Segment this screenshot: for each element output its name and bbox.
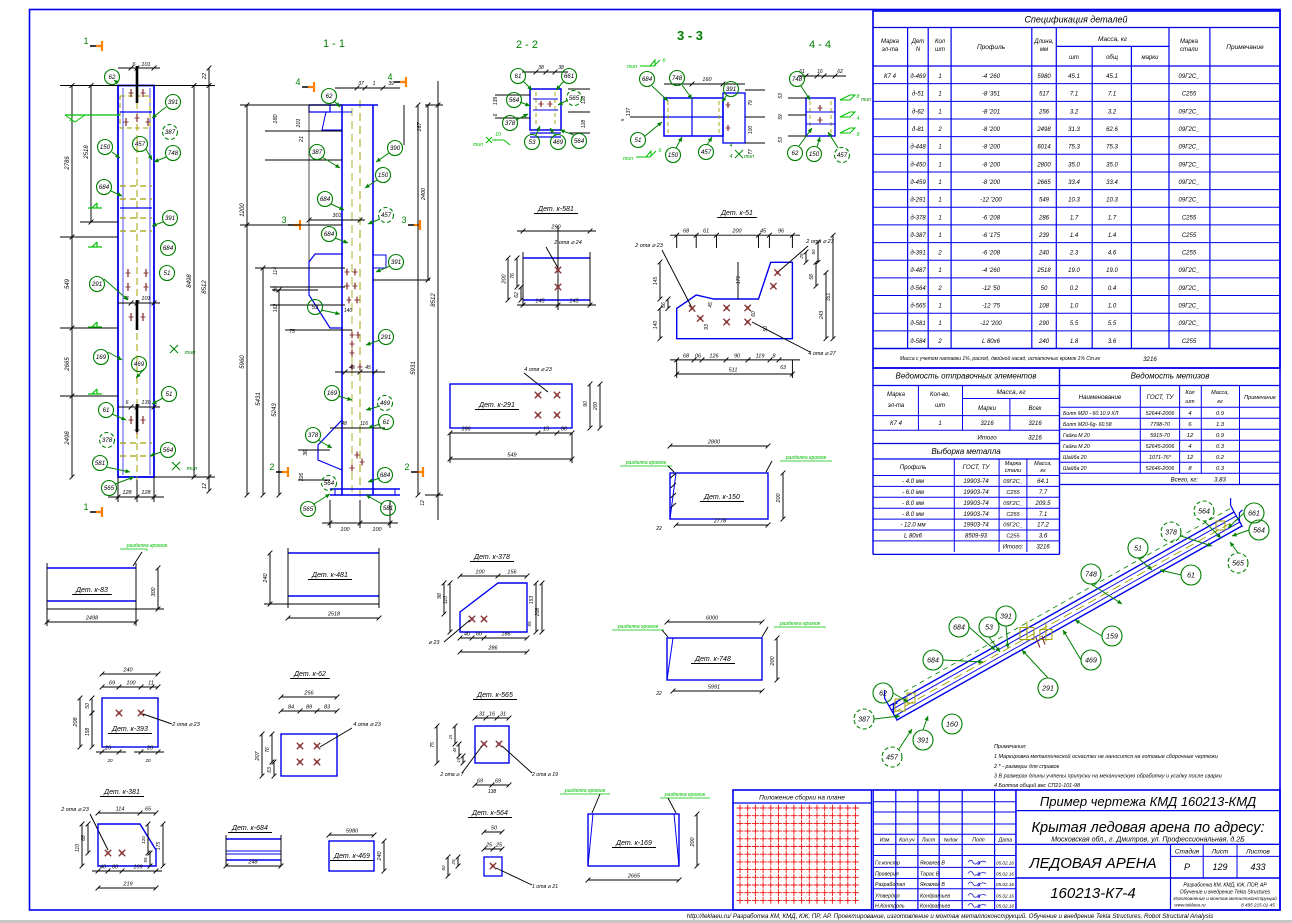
svg-text:1.4: 1.4	[1070, 233, 1079, 239]
svg-text:-12 '75: -12 '75	[982, 304, 1001, 310]
svg-text:50: 50	[491, 826, 498, 832]
svg-text:06: 06	[695, 353, 702, 359]
isometric leaders	[1204, 521, 1221, 538]
svg-text:1: 1	[938, 74, 941, 80]
svg-text:25: 25	[495, 843, 503, 849]
weld flags view 1	[88, 207, 102, 209]
svg-text:3: 3	[401, 215, 406, 225]
svg-text:1.8: 1.8	[1070, 339, 1079, 345]
svg-text:300: 300	[151, 586, 157, 596]
svg-text:378: 378	[102, 437, 113, 444]
svg-text:20: 20	[104, 746, 112, 752]
svg-text:53: 53	[778, 137, 784, 143]
svg-text:1: 1	[938, 421, 941, 427]
svg-text:564: 564	[1253, 528, 1265, 535]
svg-text:60: 60	[112, 865, 119, 871]
svg-text:Гайка М 20: Гайка М 20	[1063, 443, 1090, 450]
svg-text:684: 684	[320, 196, 331, 203]
svg-text:100: 100	[340, 527, 350, 533]
svg-text:5: 5	[620, 118, 625, 121]
svg-text:1.7: 1.7	[1070, 215, 1079, 221]
svg-text:684: 684	[163, 245, 174, 252]
svg-text:3216: 3216	[980, 421, 994, 427]
svg-text:-8 '200: -8 '200	[982, 180, 1001, 186]
svg-text:209.5: 209.5	[1034, 501, 1051, 507]
svg-text:89: 89	[306, 705, 312, 711]
svg-text:159: 159	[1106, 634, 1118, 641]
svg-text:565: 565	[303, 506, 314, 513]
svg-text:www.teklaeu.ru: www.teklaeu.ru	[1174, 903, 1206, 908]
svg-text:20: 20	[144, 758, 151, 763]
svg-text:Подп: Подп	[972, 838, 985, 844]
svg-text:16: 16	[817, 69, 823, 75]
svg-text:шт: шт	[935, 403, 945, 409]
svg-text:д-581: д-581	[910, 321, 925, 327]
svg-text:378: 378	[1165, 530, 1177, 537]
top bolt ticks	[130, 89, 132, 97]
revision table	[872, 790, 874, 910]
svg-text:64.1: 64.1	[1037, 479, 1049, 485]
svg-text:Масса,: Масса,	[1211, 390, 1229, 396]
svg-text:5.5: 5.5	[1108, 321, 1117, 327]
svg-text:09Г2С_: 09Г2С_	[1003, 523, 1023, 529]
svg-text:19903-74: 19903-74	[963, 490, 989, 496]
svg-text:75.3: 75.3	[1068, 145, 1080, 151]
svg-text:2518: 2518	[84, 145, 90, 160]
svg-text:290: 290	[1038, 321, 1050, 327]
svg-text:5243: 5243	[272, 403, 278, 417]
svg-text:50: 50	[441, 865, 446, 871]
svg-text:3216: 3216	[1143, 356, 1157, 363]
svg-text:351: 351	[826, 293, 832, 302]
svg-text:90: 90	[273, 286, 279, 292]
svg-text:д-291: д-291	[910, 198, 925, 204]
gray bottom strip	[0, 920, 1292, 923]
svg-text:68: 68	[683, 353, 690, 359]
svg-text:75: 75	[430, 742, 436, 748]
svg-text:226: 226	[299, 473, 305, 483]
svg-text:45: 45	[452, 747, 457, 752]
svg-text:21: 21	[299, 136, 305, 143]
hidden plate dashes view 1	[120, 185, 152, 187]
svg-text:-8 '201: -8 '201	[982, 109, 1000, 115]
svg-text:Обучение и внедрение Tekla Str: Обучение и внедрение Tekla Structures	[1180, 890, 1271, 896]
svg-text:3.83: 3.83	[1214, 478, 1226, 484]
svg-text:Кол-во,: Кол-во,	[930, 392, 950, 398]
svg-text:69: 69	[109, 681, 115, 687]
svg-text:748: 748	[792, 76, 803, 83]
svg-text:09Г2С_: 09Г2С_	[1179, 162, 1200, 168]
svg-text:Дет. к-51: Дет. к-51	[720, 210, 753, 217]
svg-text:1: 1	[373, 81, 376, 87]
svg-text:Дата: Дата	[997, 838, 1012, 844]
svg-text:101: 101	[296, 118, 302, 127]
svg-text:45: 45	[760, 229, 767, 235]
svg-text:160: 160	[946, 722, 958, 729]
svg-text:301: 301	[332, 213, 341, 219]
svg-text:2498: 2498	[1036, 127, 1051, 133]
svg-text:748: 748	[672, 75, 683, 82]
svg-text:4 отв ⌀ 23: 4 отв ⌀ 23	[353, 722, 382, 728]
svg-text:61: 61	[103, 407, 110, 414]
svg-text:тип: тип	[627, 64, 637, 70]
svg-text:137: 137	[626, 108, 632, 117]
svg-text:51: 51	[1134, 546, 1142, 553]
svg-text:09Г2С_: 09Г2С_	[1179, 304, 1200, 310]
svg-text:19.0: 19.0	[1106, 268, 1118, 274]
svg-text:661: 661	[1248, 511, 1260, 518]
svg-text:-4 '260: -4 '260	[982, 268, 1001, 274]
svg-text:Марки: Марки	[978, 406, 997, 412]
svg-text:59: 59	[778, 114, 784, 120]
svg-text:Шайба 20: Шайба 20	[1063, 465, 1087, 472]
svg-text:45: 45	[708, 302, 714, 308]
svg-text:38: 38	[538, 65, 544, 71]
svg-text:N: N	[916, 47, 921, 53]
svg-text:шт: шт	[1069, 55, 1079, 61]
svg-text:-8 '200: -8 '200	[982, 127, 1001, 133]
svg-text:Дет. к-564: Дет. к-564	[471, 810, 508, 817]
svg-text:Лист: Лист	[921, 838, 936, 844]
svg-text:Разработал: Разработал	[875, 882, 905, 888]
svg-text:д-564: д-564	[910, 286, 926, 292]
svg-text:11: 11	[148, 681, 154, 687]
svg-text:457: 457	[701, 149, 712, 156]
svg-text:3 - 3: 3 - 3	[677, 28, 703, 43]
svg-text:1: 1	[83, 36, 88, 46]
dims 4-4	[798, 75, 846, 77]
svg-text:19903-74: 19903-74	[963, 501, 989, 507]
svg-text:тип: тип	[861, 97, 871, 103]
svg-text:110: 110	[75, 844, 81, 852]
svg-text:286: 286	[487, 646, 498, 652]
svg-text:79: 79	[748, 100, 754, 106]
detail к-481	[288, 552, 379, 554]
svg-text:2400: 2400	[421, 187, 427, 201]
svg-text:25: 25	[485, 843, 493, 849]
dim 8 101 mid	[118, 302, 160, 304]
svg-text:мм: мм	[1040, 47, 1048, 53]
svg-text:100: 100	[748, 126, 754, 135]
svg-text:общ: общ	[1106, 55, 1118, 61]
svg-text:Листов: Листов	[1245, 849, 1270, 856]
title block right part	[1015, 790, 1017, 910]
svg-text:3.2: 3.2	[1070, 109, 1079, 115]
svg-text:4: 4	[1188, 411, 1191, 417]
svg-text:Яковлев В: Яковлев В	[919, 860, 945, 866]
svg-text:09Г2С_: 09Г2С_	[1179, 286, 1200, 292]
svg-text:139: 139	[141, 400, 150, 406]
svg-text:С255: С255	[1182, 215, 1197, 221]
svg-text:Ведомость метизов: Ведомость метизов	[1131, 372, 1210, 381]
svg-text:Дет: Дет	[911, 39, 925, 45]
svg-text:кг: кг	[1040, 468, 1046, 474]
svg-text:L 80х6: L 80х6	[904, 534, 923, 540]
svg-text:09Г2С_: 09Г2С_	[1003, 501, 1023, 507]
svg-text:748: 748	[168, 150, 179, 157]
title block	[733, 790, 1280, 910]
svg-text:2800: 2800	[1036, 162, 1051, 168]
svg-text:4 отв ⌀ 27: 4 отв ⌀ 27	[808, 351, 837, 357]
svg-text:109: 109	[133, 865, 142, 871]
svg-text:-8 '200: -8 '200	[982, 162, 1001, 168]
svg-text:61: 61	[703, 229, 709, 235]
svg-text:129: 129	[1212, 862, 1227, 872]
svg-text:тип: тип	[623, 156, 633, 162]
svg-text:8509-93: 8509-93	[965, 534, 988, 540]
svg-text:564: 564	[324, 480, 335, 487]
svg-text:2: 2	[404, 462, 409, 472]
svg-text:Кондратьев: Кондратьев	[920, 904, 950, 910]
svg-text:53: 53	[985, 625, 993, 632]
svg-text:581: 581	[383, 505, 393, 512]
svg-text:7.7: 7.7	[1039, 490, 1048, 496]
leaders view 1	[114, 80, 118, 83]
small left dims mid	[270, 267, 345, 269]
svg-text:-6 '208: -6 '208	[982, 215, 1001, 221]
svg-text:256: 256	[1038, 109, 1050, 115]
svg-text:128: 128	[122, 490, 132, 496]
svg-text:684: 684	[953, 625, 965, 632]
svg-text:62.6: 62.6	[1106, 127, 1118, 133]
svg-text:Кол: Кол	[935, 39, 946, 45]
svg-text:разделка кромок: разделка кромок	[779, 621, 821, 627]
svg-text:564: 564	[1198, 509, 1210, 516]
svg-text:3216: 3216	[1036, 545, 1050, 551]
lower gusset 1-1	[318, 420, 342, 470]
svg-text:19.0: 19.0	[1068, 268, 1080, 274]
svg-text:4 отв ⌀ 23: 4 отв ⌀ 23	[524, 367, 553, 373]
svg-text:1.7: 1.7	[1108, 215, 1117, 221]
svg-text:200: 200	[731, 229, 742, 235]
svg-text:2498: 2498	[85, 616, 99, 622]
svg-text:Р: Р	[1184, 862, 1190, 872]
svg-text:175: 175	[156, 842, 162, 851]
svg-text:2800: 2800	[707, 440, 721, 446]
svg-text:Наименование: Наименование	[1079, 394, 1122, 401]
svg-text:101: 101	[141, 62, 150, 68]
svg-text:-12 '200: -12 '200	[980, 198, 1002, 204]
left dims 1-1	[246, 105, 248, 495]
circles 3-3	[640, 72, 655, 87]
svg-text:http://teklaeu.ru/ Разработка: http://teklaeu.ru/ Разработка КМ, КМД, К…	[687, 913, 1213, 920]
svg-text:Кол: Кол	[1185, 390, 1194, 396]
svg-text:Всего, кг:: Всего, кг:	[1171, 478, 1199, 484]
svg-text:5980: 5980	[346, 829, 359, 835]
svg-text:378: 378	[505, 120, 516, 127]
svg-text:391: 391	[726, 86, 736, 93]
dims 128 128 bottom	[117, 477, 119, 502]
svg-text:62: 62	[879, 691, 887, 698]
svg-text:2786: 2786	[65, 156, 71, 171]
svg-text:Всех: Всех	[1028, 406, 1042, 412]
svg-text:Примечание: Примечание	[1226, 44, 1264, 51]
mid bolt ticks	[130, 313, 132, 321]
svg-text:4: 4	[1188, 444, 1191, 450]
svg-text:3 В размерах длины учтены при: 3 В размерах длины учтены припуски на ме…	[994, 774, 1222, 780]
svg-text:ЛЕДОВАЯ АРЕНА: ЛЕДОВАЯ АРЕНА	[1028, 855, 1156, 872]
svg-text:Итого: Итого	[977, 435, 997, 442]
svg-text:ГОСТ, ТУ: ГОСТ, ТУ	[963, 464, 991, 471]
svg-text:7.1: 7.1	[1108, 92, 1116, 98]
svg-text:140: 140	[344, 308, 353, 314]
isometric callout circles	[1194, 501, 1214, 521]
svg-text:153: 153	[529, 596, 535, 605]
svg-text:д-469: д-469	[910, 74, 926, 80]
weld marks 4-4	[840, 95, 855, 100]
svg-text:1.0: 1.0	[1108, 304, 1117, 310]
svg-text:200: 200	[593, 402, 599, 412]
svg-text:248: 248	[247, 860, 258, 866]
svg-text:09Г2С_: 09Г2С_	[1003, 479, 1023, 485]
svg-text:разделка кромок: разделка кромок	[564, 788, 606, 794]
dim 6 139 low	[118, 406, 160, 408]
svg-text:138: 138	[488, 789, 497, 795]
svg-text:Московская обл., г. Дмитров, у: Московская обл., г. Дмитров, ул. Професс…	[1051, 836, 1245, 844]
svg-text:162: 162	[273, 304, 279, 313]
svg-text:16: 16	[456, 757, 461, 762]
svg-text:разделка кромок: разделка кромок	[126, 543, 168, 549]
right dims 1-1	[417, 105, 419, 495]
green callout circles view 1	[105, 70, 120, 85]
svg-text:120: 120	[141, 836, 146, 844]
svg-text:5.5: 5.5	[1070, 321, 1079, 327]
svg-text:38: 38	[558, 65, 564, 71]
svg-text:д-81: д-81	[912, 127, 924, 133]
svg-text:45.1: 45.1	[1106, 74, 1118, 80]
svg-text:68: 68	[683, 229, 690, 235]
svg-text:09Г2С_: 09Г2С_	[1179, 268, 1200, 274]
svg-text:7.1: 7.1	[1070, 92, 1078, 98]
svg-text:240: 240	[263, 572, 269, 583]
web right notch	[373, 255, 386, 268]
svg-text:4: 4	[730, 154, 733, 160]
svg-text:2 * - размеры для справок: 2 * - размеры для справок	[993, 764, 1060, 770]
svg-text:207: 207	[255, 750, 261, 761]
svg-text:76: 76	[510, 273, 516, 279]
svg-text:684: 684	[927, 658, 939, 665]
svg-text:Проверил: Проверил	[875, 872, 899, 878]
svg-text:тип: тип	[473, 142, 483, 148]
svg-text:20: 20	[146, 746, 154, 752]
svg-text:05.02.16: 05.02.16	[996, 904, 1014, 909]
column axis dashed view 1	[136, 80, 138, 480]
svg-text:Дет. к-565: Дет. к-565	[476, 692, 513, 699]
svg-text:6014: 6014	[1037, 145, 1051, 151]
svg-text:С255: С255	[1182, 233, 1197, 239]
svg-text:433: 433	[1250, 862, 1265, 872]
svg-text:0.9: 0.9	[1216, 411, 1225, 417]
svg-text:180: 180	[273, 113, 279, 123]
svg-text:Гл.констр: Гл.констр	[875, 860, 900, 866]
svg-text:243: 243	[819, 311, 825, 321]
svg-text:167: 167	[417, 121, 423, 131]
svg-text:ГОСТ, ТУ: ГОСТ, ТУ	[1147, 394, 1175, 401]
svg-text:2498: 2498	[65, 431, 71, 446]
dims view 1 right chain	[193, 86, 195, 478]
svg-text:139: 139	[493, 97, 499, 106]
svg-text:50: 50	[85, 703, 91, 709]
svg-text:2 отв ⌀ 24: 2 отв ⌀ 24	[553, 240, 582, 246]
svg-text:565: 565	[569, 95, 580, 102]
svg-text:457: 457	[886, 755, 899, 762]
svg-text:3216: 3216	[1028, 435, 1042, 442]
svg-text:128: 128	[581, 120, 587, 129]
svg-text:2665: 2665	[65, 357, 71, 372]
svg-text:- 8.0 мм: - 8.0 мм	[902, 501, 924, 507]
svg-text:50: 50	[811, 249, 816, 255]
svg-text:116: 116	[360, 421, 368, 427]
svg-text:2665: 2665	[1036, 180, 1051, 186]
svg-text:12: 12	[202, 483, 208, 489]
svg-text:565: 565	[1232, 561, 1244, 568]
svg-text:61: 61	[1187, 573, 1195, 580]
svg-text:84: 84	[288, 705, 294, 711]
svg-text:Крытая ледовая арена по адресу: Крытая ледовая арена по адресу:	[1031, 820, 1264, 836]
svg-text:разделка кромок: разделка кромок	[785, 455, 827, 461]
svg-text:52645-2006: 52645-2006	[1146, 444, 1175, 450]
svg-text:2 - 2: 2 - 2	[516, 39, 538, 51]
svg-text:09Г2С_: 09Г2С_	[1179, 127, 1200, 133]
leaders 1-1	[334, 101, 340, 107]
section 3-3 body	[664, 98, 723, 136]
svg-text:12: 12	[1187, 455, 1194, 461]
svg-text:10.3: 10.3	[1106, 198, 1118, 204]
leaders 3-3	[652, 86, 668, 101]
svg-text:Гайка М 20: Гайка М 20	[1063, 432, 1090, 439]
svg-text:д-584: д-584	[910, 339, 926, 345]
svg-text:160213-К7-4: 160213-К7-4	[1050, 885, 1136, 902]
bolts view 1-1	[346, 269, 348, 276]
svg-text:Стадия: Стадия	[1175, 848, 1200, 856]
svg-text:09Г2С_: 09Г2С_	[1179, 74, 1200, 80]
svg-text:8512: 8512	[202, 280, 208, 294]
dim 48 116	[330, 427, 385, 429]
svg-text:75.3: 75.3	[1106, 145, 1118, 151]
svg-text:549: 549	[65, 278, 71, 289]
svg-text:50: 50	[1041, 286, 1048, 292]
svg-text:С255: С255	[1182, 92, 1197, 98]
svg-text:2 отв ⌀ 23: 2 отв ⌀ 23	[634, 243, 664, 249]
svg-text:19903-74: 19903-74	[963, 512, 989, 518]
svg-text:564: 564	[574, 138, 585, 145]
svg-text:8498: 8498	[187, 274, 193, 288]
svg-text:0.4: 0.4	[1108, 286, 1117, 292]
svg-text:2: 2	[937, 286, 942, 292]
svg-text:Дет. к-748: Дет. к-748	[694, 656, 731, 663]
svg-text:Пример чертежа КМД 160213-КМД: Пример чертежа КМД 160213-КМД	[1040, 794, 1256, 809]
svg-text:53: 53	[778, 93, 784, 99]
svg-text:2 отв ⌀ 19: 2 отв ⌀ 19	[531, 772, 558, 778]
svg-text:291: 291	[380, 334, 391, 341]
svg-text:15: 15	[448, 734, 453, 739]
svg-text:17.2: 17.2	[1037, 523, 1049, 529]
svg-text:108: 108	[1039, 304, 1050, 310]
svg-text:2: 2	[937, 251, 942, 257]
thick section posts	[136, 66, 139, 103]
svg-text:разделка кромок: разделка кромок	[664, 792, 706, 798]
svg-text:К7 4: К7 4	[890, 421, 903, 427]
detail к-469	[329, 834, 374, 836]
weld line top view 1	[65, 114, 120, 116]
svg-text:160: 160	[702, 77, 712, 83]
svg-text:тип: тип	[185, 350, 196, 356]
dim 301	[309, 219, 365, 221]
svg-text:200: 200	[502, 273, 508, 284]
svg-text:1: 1	[938, 92, 941, 98]
svg-text:Ведомость отправочных элементо: Ведомость отправочных элементов	[896, 372, 1037, 381]
svg-text:391: 391	[1000, 614, 1012, 621]
